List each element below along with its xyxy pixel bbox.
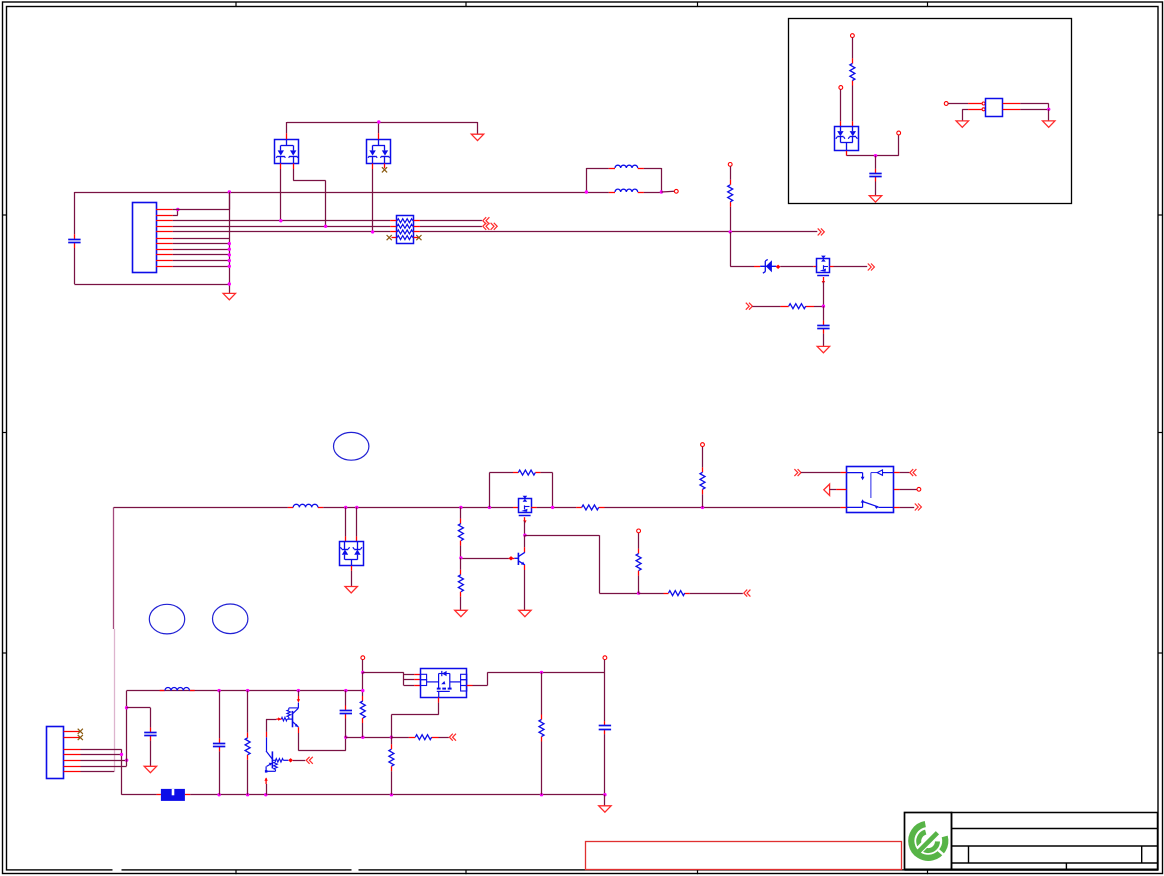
wire C7 bottom	[604, 734, 606, 795]
wire C6 top	[345, 691, 347, 706]
wire node to C3	[875, 156, 877, 169]
wire U4 out top	[900, 472, 910, 474]
net pin P6	[944, 102, 948, 106]
connector J1	[133, 203, 157, 273]
port chevron net2 left	[483, 223, 490, 230]
junction rail4 R15	[540, 671, 543, 674]
resistor R5	[582, 505, 599, 510]
resistor pack RP1 elements	[397, 219, 413, 240]
port chevron U4 bottom out	[915, 504, 922, 511]
capacitor C2 stubs	[823, 321, 825, 326]
capacitor C1	[68, 239, 80, 241]
wire J1 pin8 to gnd riser	[173, 249, 230, 251]
capacitor C6 stubs	[345, 706, 347, 711]
wire J1 pin9 to gnd riser	[173, 254, 230, 256]
junction gnd riser	[228, 259, 231, 262]
net pin P3	[851, 34, 855, 38]
junction gnd riser	[228, 253, 231, 256]
wire M1 out h	[473, 685, 488, 687]
resistor R14 stubs	[391, 744, 393, 749]
junction mid node C6	[344, 736, 347, 739]
wire R15 top	[541, 672, 543, 714]
inductor L4	[165, 688, 190, 691]
capacitor C4	[144, 732, 156, 734]
B1 left-top stub	[968, 103, 982, 105]
capacitor C7 stubs	[604, 721, 606, 726]
junction x362 a	[361, 671, 364, 674]
junction top rail / riser	[228, 190, 231, 193]
wire R11 bottom	[247, 760, 249, 795]
resistor R14	[389, 749, 394, 766]
ground GND4	[869, 196, 881, 202]
wire Q3 emitter	[524, 570, 526, 610]
Q2 right stub	[531, 507, 536, 509]
RP1 left stubs	[390, 221, 396, 238]
wire R2 to junction	[814, 306, 823, 308]
ESD3 riser a stub	[345, 536, 347, 541]
pin diamond D1	[776, 265, 781, 269]
Q3 collector stub	[524, 547, 526, 552]
port chevron Q1 drain	[868, 264, 875, 271]
U5 right-top stub	[852, 121, 854, 126]
junction loop right	[660, 190, 663, 193]
resistor R11	[245, 738, 250, 755]
junction J2 p3p4	[120, 753, 123, 756]
junction U2 bus3	[371, 230, 374, 233]
wire C5 top	[219, 691, 221, 739]
junction rail3 c2	[217, 689, 220, 692]
resistor pack RP1	[397, 216, 414, 244]
wire Q4 emitter h	[298, 750, 345, 752]
capacitor C5	[213, 743, 225, 745]
wire M1 out riser	[487, 672, 489, 685]
capacitor C3 stubs	[875, 169, 877, 174]
resistor R12 stubs	[362, 696, 364, 701]
wire loop right riser	[661, 168, 663, 192]
wire Q5 emitter down	[266, 784, 268, 795]
wire J1 pin1 riser up	[229, 192, 231, 210]
junction B1 out	[1047, 108, 1050, 111]
wire M1 bottom h	[391, 714, 438, 716]
ESD3 riser b stub	[356, 536, 358, 541]
wire VCC left vertical	[74, 192, 76, 234]
U2 pin3 stub	[372, 164, 374, 170]
U5 left-top stub	[840, 121, 842, 126]
wire U4 out bottom	[900, 507, 915, 509]
ESD diode array U2	[367, 139, 391, 163]
wire net3 out	[420, 231, 817, 233]
ESD diode array U1	[275, 139, 299, 163]
wire U1 pin4 down2	[325, 181, 327, 227]
RP1 right stubs	[414, 221, 420, 238]
net pin P10	[361, 656, 365, 660]
no-connect J2 pin2	[78, 735, 83, 740]
junction gnd riser	[228, 242, 231, 245]
wire U5 to node	[847, 155, 899, 157]
transistor Q3	[514, 552, 525, 565]
junction rail3 c1	[344, 689, 347, 692]
wire U2 top riser	[378, 122, 380, 133]
B1 pin circle b	[982, 108, 985, 111]
wire loop2 right riser	[552, 473, 554, 508]
resistor R4	[518, 470, 535, 475]
net wire pale vertical	[114, 629, 116, 772]
pin diamond Q5 base	[288, 758, 293, 762]
resistor R6	[458, 524, 463, 541]
junction mid node R12	[361, 736, 364, 739]
wire B1 out top	[1020, 103, 1048, 105]
wire R6 bottom	[460, 546, 462, 558]
resistor R9 stubs	[638, 549, 640, 554]
net wire colored vertical	[113, 507, 115, 629]
fuse F1 stubs	[157, 794, 161, 796]
ground GND2	[471, 134, 483, 140]
wire P10 down	[362, 660, 364, 673]
wire loop2 top left	[489, 472, 513, 474]
wire net1 out	[420, 220, 482, 222]
wire B1 out bottom	[1020, 109, 1048, 111]
wire bus2	[173, 226, 390, 228]
wire chev3 b	[439, 737, 449, 739]
wire rail2 after Q2	[537, 507, 577, 509]
wire J2 pin5	[81, 760, 127, 762]
wire Q4 emitter v	[298, 733, 300, 751]
resistor R3	[850, 64, 855, 81]
sub-circuit frame	[789, 19, 1072, 204]
wire R11 top	[247, 691, 249, 733]
junction divider	[459, 556, 462, 559]
inductor L3 stubs	[288, 507, 293, 509]
wire P4 down	[840, 89, 842, 121]
resistor R1 stubs	[730, 180, 732, 185]
wire ground stub J1	[229, 284, 231, 293]
wire bottom rail3 b	[190, 794, 605, 796]
wire R7 top	[460, 558, 462, 570]
resistor R6 stubs	[460, 519, 462, 524]
junction rail2 loop L	[488, 506, 491, 509]
ESD diode array U3	[340, 542, 364, 566]
junction U1 bus2	[324, 225, 327, 228]
U2 top pin stub	[378, 133, 380, 139]
transistor Q5	[265, 751, 288, 773]
wire bus3 down	[730, 232, 732, 266]
wire J1 pin2 riser	[177, 210, 179, 216]
port chevron U4 top out	[910, 469, 917, 476]
wire Q1 out	[834, 266, 868, 268]
wire rail2 start	[114, 507, 288, 509]
junction bottom rail end	[603, 793, 606, 796]
ground GND9	[519, 610, 531, 616]
wire step v	[599, 535, 601, 593]
title block	[905, 813, 1159, 870]
wire bus3	[173, 231, 390, 233]
wire Q4 emitter riser	[345, 737, 347, 750]
resistor R15 stubs	[541, 715, 543, 720]
wire loop top right	[644, 168, 662, 170]
inductor L2 stubs	[609, 192, 615, 194]
wire to zener	[730, 266, 754, 268]
inductor L1	[615, 165, 638, 168]
U2 pin4 stub	[384, 164, 386, 169]
ground GND1	[223, 293, 235, 299]
ground GND7	[345, 587, 357, 593]
connector J1 pin stubs	[156, 210, 173, 267]
wire J2 pin6	[81, 766, 127, 768]
net pin P9	[917, 487, 921, 491]
wire R7 bottom	[460, 597, 462, 611]
ESD diode array U5	[835, 127, 859, 151]
wire bottom rail3 a	[122, 794, 157, 796]
B1 left-bottom stub	[968, 109, 982, 111]
inductor L1 stubs	[609, 168, 615, 170]
P-MOSFET Q1	[817, 256, 830, 276]
wire B1 gnd left	[962, 109, 968, 111]
net pin P4	[839, 86, 843, 90]
net pin P2	[728, 163, 732, 167]
zener diode D1	[760, 259, 776, 273]
U4 left-bottom stub	[841, 507, 847, 509]
resistor R12	[360, 701, 365, 718]
wire J1 pin1 to riser	[173, 209, 230, 211]
wire J1 pin7 to gnd riser	[173, 243, 230, 245]
wire P3 down	[852, 38, 854, 59]
wire U1 top to rail	[286, 122, 288, 133]
wire Q5 base out	[293, 760, 305, 762]
resistor R15	[539, 720, 544, 737]
wire rail2 mid	[323, 507, 513, 509]
wire junction to C2	[823, 306, 825, 320]
ellipse mark E3	[213, 604, 248, 634]
wire J2 pin3 riser	[121, 749, 123, 794]
no-connect U2 pin4	[382, 167, 387, 172]
net pin P1	[674, 189, 678, 193]
port chevron net3	[818, 228, 825, 235]
B1 pin circle a	[982, 102, 985, 105]
wire bus1	[173, 220, 390, 222]
junction mid node right	[390, 736, 393, 739]
wire C5 bottom	[219, 751, 221, 794]
wire step h1	[525, 535, 599, 537]
Q1 left stub	[813, 266, 817, 268]
junction gate2	[523, 534, 526, 537]
U4 right-mid stub	[894, 489, 900, 491]
net pin P8	[701, 443, 705, 447]
port chevron sec3	[449, 734, 456, 741]
U4 left-mid stub	[836, 489, 846, 491]
wire port to U4	[801, 472, 841, 474]
wire top rail	[74, 192, 586, 194]
ellipse mark E2	[149, 604, 184, 634]
wire P11 down	[604, 660, 606, 673]
Q4 base arrow	[276, 718, 281, 720]
resistor R4 stubs	[513, 472, 518, 474]
capacitor C4 stubs	[150, 728, 152, 733]
junction bottom / riser	[228, 282, 231, 285]
zener D1 left stub	[754, 266, 760, 268]
B1 right stubs	[1003, 103, 1021, 105]
wire gate net	[752, 306, 780, 308]
no-connect RP1 pin5 right	[416, 235, 421, 240]
wire U1 pin3 down	[280, 169, 282, 221]
wire rail4	[487, 672, 605, 674]
U1 pin4 stub	[293, 164, 295, 170]
junction x362 b	[361, 689, 364, 692]
M1 right stub	[467, 685, 473, 687]
junction bottom rail r	[246, 793, 249, 796]
port triangle U4 mid	[824, 484, 830, 495]
wire R9 bottom	[638, 576, 640, 594]
junction ESD rail U2	[377, 120, 380, 123]
no-connect RP1 pin4 left	[387, 235, 392, 240]
port chevron gate net	[746, 303, 753, 310]
opto-relay U4	[846, 467, 893, 513]
wire J2 pin4	[81, 754, 122, 756]
wire step to R8	[639, 593, 664, 595]
wire R1 top	[730, 166, 732, 180]
junction rail2 Rup	[701, 506, 704, 509]
net pin P7	[637, 529, 641, 533]
capacitor C2	[817, 325, 829, 327]
wire R15 bottom	[541, 742, 543, 795]
port chevron Q5 base	[306, 757, 313, 764]
resistor R13 stubs	[409, 737, 415, 739]
Q5 collector stub	[266, 732, 268, 737]
component B1	[986, 99, 1003, 117]
junction bottom rail q4	[264, 793, 267, 796]
junction loop left	[585, 190, 588, 193]
wire J1 pin2 step	[173, 215, 178, 217]
module left stubs	[404, 675, 421, 686]
wire B1 out riser	[1048, 104, 1050, 110]
junction pin1/pin2	[176, 208, 179, 211]
wire ESD3 riser b	[356, 507, 358, 536]
wire node riser	[898, 135, 900, 156]
inductor L3	[293, 504, 318, 507]
resistor R1	[728, 185, 733, 202]
wire branch C4 h	[127, 707, 151, 709]
capacitor C5 stubs	[219, 738, 221, 743]
junction bottom rail c2	[217, 793, 220, 796]
wire R3 to U5	[852, 86, 854, 122]
wire loop2 left riser	[489, 473, 491, 508]
capacitor C3	[869, 173, 881, 175]
M1 bottom stub	[438, 698, 440, 703]
junction U1 bus1	[279, 219, 282, 222]
wire loop2 top right	[541, 472, 553, 474]
resistor R7 stubs	[460, 570, 462, 575]
resistor R2	[789, 304, 806, 309]
wire mid node h	[346, 737, 392, 739]
no-connect J2 pin1	[78, 729, 83, 734]
resistor R5 stubs	[576, 507, 581, 509]
wire gate2 to Q3	[524, 535, 526, 547]
capacitor C1 pin stubs	[74, 234, 76, 239]
ground GND3	[817, 346, 829, 352]
pin diamond Q3 base	[509, 556, 514, 560]
wire U2 pin3 down	[372, 169, 374, 232]
U1 pin3 stub	[280, 164, 282, 170]
wire U3 to gnd	[351, 571, 353, 587]
junction rail3 r	[246, 689, 249, 692]
junction J2 p5p6	[125, 759, 128, 762]
wire rail L1-L2 gap	[586, 192, 608, 194]
resistor R8 stubs	[664, 593, 669, 595]
wire P6 to B1	[948, 103, 968, 105]
wire R8 out	[690, 593, 743, 595]
wire Q3 base	[461, 558, 509, 560]
wire U4 out mid	[900, 489, 917, 491]
port chevron U4 in	[794, 469, 801, 476]
Q4 emitter stub	[298, 727, 300, 733]
capacitor C7	[599, 725, 611, 727]
wire ESD rail to ground	[477, 122, 479, 134]
junction sub node	[874, 154, 877, 157]
junction bottom rail rdiv	[390, 793, 393, 796]
wire J1 pin10 to gnd riser	[173, 260, 230, 262]
wire C7 top	[604, 672, 606, 721]
wire C6 bottom	[345, 719, 347, 738]
wire J2 pin6 riser	[126, 691, 128, 766]
Q5 emitter arrow	[265, 778, 267, 784]
wire R6 top	[460, 507, 462, 518]
ground GND5	[956, 121, 968, 127]
wire x362 mid	[362, 672, 364, 696]
resistor R8	[669, 591, 685, 596]
Q2 gate stub	[524, 517, 526, 521]
wire J2 pin7	[81, 771, 115, 773]
logo box	[905, 813, 952, 870]
wire step h2	[599, 593, 638, 595]
junction gnd riser	[228, 248, 231, 251]
wire M1 to junction	[391, 715, 393, 738]
connector J2	[47, 727, 64, 779]
wire C2 to gnd	[823, 334, 825, 347]
wire rail3	[127, 690, 363, 692]
resistor R9	[636, 554, 641, 571]
Q5 collector lead	[266, 737, 268, 751]
junction rail3 q3	[297, 689, 300, 692]
wire Q4 collector	[298, 691, 300, 696]
resistor R13	[415, 735, 431, 740]
wire rail after L2	[644, 192, 662, 194]
wire branch C4 v	[150, 708, 152, 728]
junction step	[637, 591, 640, 594]
wire tri to U4	[830, 489, 837, 491]
junction gate/C2	[822, 305, 825, 308]
ground GND10	[144, 766, 156, 772]
junction rail2 esd a	[344, 506, 347, 509]
resistor R3 stubs	[852, 58, 854, 63]
wire C4 to gnd	[150, 741, 152, 767]
fuse F1	[161, 789, 185, 801]
port chevron net1	[483, 217, 490, 224]
junction gnd riser	[228, 265, 231, 268]
wire J1 pin6 to gnd riser	[173, 238, 230, 240]
capacitor C6	[340, 710, 352, 712]
inner border gaps	[113, 869, 359, 871]
Q1 right stub	[830, 266, 834, 268]
junction rail2 esd b	[355, 506, 358, 509]
U4 left-top stub	[841, 472, 847, 474]
wire R9 top	[638, 533, 640, 549]
junction bottom rail r7b	[540, 793, 543, 796]
U4 right-top stub	[894, 472, 900, 474]
wire rail to pin	[661, 190, 674, 193]
ground GND8	[455, 610, 467, 616]
P-MOSFET Q2	[519, 496, 532, 516]
MOSFET module M1	[420, 669, 466, 698]
wire module link v	[403, 672, 405, 685]
